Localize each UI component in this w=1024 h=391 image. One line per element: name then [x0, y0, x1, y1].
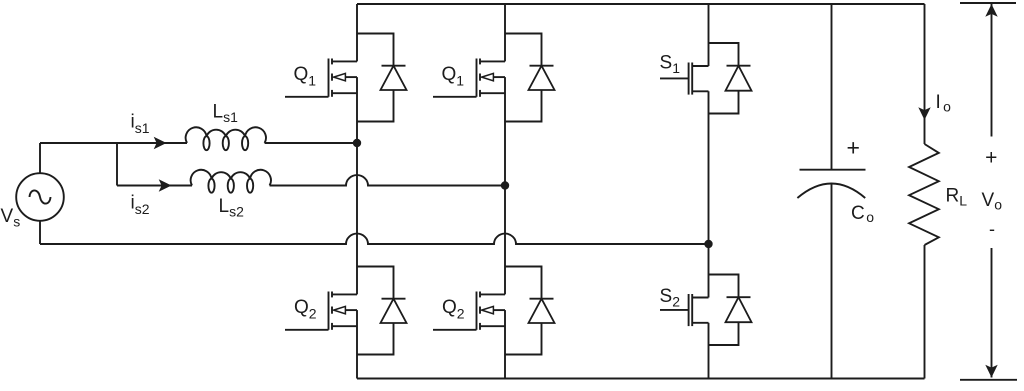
- wire leg3 upper (rail to S1 drain): [708, 4, 710, 66]
- wire Vs top lead: [39, 143, 41, 173]
- diode D6 (anti-parallel): [709, 275, 752, 346]
- svg-text:Io: Io: [936, 92, 952, 115]
- transistor Q2 (MOSFET, leg x=357): [285, 292, 357, 330]
- svg-text:Q2: Q2: [294, 297, 317, 322]
- svg-text:is2: is2: [131, 193, 150, 218]
- wire bottom rail (- bus): [357, 378, 925, 380]
- svg-text:Q2: Q2: [442, 297, 465, 322]
- svg-text:S2: S2: [660, 286, 681, 310]
- arrow Io (output current): [918, 107, 930, 120]
- dimension bar bottom: [960, 379, 1017, 381]
- node C (junction leg3 / return): [704, 240, 712, 248]
- node B (junction leg2 / is2): [501, 181, 509, 189]
- wire is1 horizontal (y=143): [40, 142, 187, 144]
- inductor Ls2: [191, 170, 271, 193]
- svg-text:Vo: Vo: [982, 190, 1003, 213]
- arrow is2 (current direction): [159, 179, 172, 191]
- transistor Q1 (MOSFET, leg x=357): [285, 59, 357, 97]
- svg-text:-: -: [989, 219, 995, 239]
- arrow Vo up: [985, 4, 997, 17]
- wire is2 left segment: [117, 185, 192, 187]
- svg-text:S1: S1: [660, 53, 681, 77]
- transistor S2 (MOSFET, leg x=708.5): [660, 294, 709, 326]
- arrow Vo down: [985, 365, 997, 378]
- svg-text:Ls1: Ls1: [213, 102, 239, 126]
- wire cap upper lead: [831, 4, 833, 170]
- svg-text:Q1: Q1: [442, 64, 465, 89]
- transistor Q1b (MOSFET, leg x=505): [433, 59, 505, 97]
- wire leg1 lower (Q2 source to rail): [356, 310, 358, 378]
- diode D1 (anti-parallel): [357, 34, 407, 122]
- wire leg1 middle (Q1 source to Q2 drain): [356, 77, 358, 294]
- wire is2 with hop over leg1: [270, 175, 505, 185]
- wire load lower lead: [924, 245, 926, 379]
- dimension bar top: [960, 2, 1016, 4]
- inductor Ls1: [186, 127, 266, 150]
- wire Vs bottom lead: [39, 221, 41, 244]
- wire leg2 upper (rail to Q1 drain): [504, 4, 506, 61]
- sine symbol inside Vs: [30, 190, 51, 203]
- wire Vo annotation lower: [991, 248, 993, 378]
- wire Ls1 to leg1: [265, 142, 357, 144]
- wire leg2 lower (Q2 source to rail): [504, 310, 506, 378]
- wire leg2 middle (Q1 source to Q2 drain): [504, 77, 506, 294]
- diode D5 (anti-parallel): [709, 43, 752, 114]
- node A (junction leg1 / is1): [353, 139, 361, 147]
- wire leg3 lower (S2 source to rail): [708, 323, 710, 379]
- wire top rail (+ bus): [357, 3, 925, 5]
- svg-text:+: +: [985, 147, 997, 170]
- diode D3 (anti-parallel): [505, 34, 555, 122]
- svg-text:Vs: Vs: [1, 206, 21, 230]
- svg-text:+: +: [847, 135, 860, 161]
- svg-text:Ls2: Ls2: [219, 196, 245, 220]
- diode D4 (anti-parallel): [505, 267, 555, 355]
- wire leg1 upper (rail to Q1 drain): [356, 4, 358, 61]
- diode D2 (anti-parallel): [357, 267, 407, 355]
- svg-text:Co: Co: [851, 203, 874, 225]
- capacitor Co bottom plate (curved): [797, 184, 865, 199]
- wire Vo annotation upper: [991, 4, 993, 137]
- svg-text:Q1: Q1: [294, 64, 317, 89]
- svg-text:RL: RL: [946, 186, 968, 209]
- resistor RL (zigzag): [909, 144, 939, 245]
- wire Vs return with hops over leg1 and leg2: [40, 234, 709, 244]
- capacitor Co top plate: [800, 169, 866, 171]
- wire leg3 middle (S1 source to S2 drain): [708, 91, 710, 297]
- wire cap lower lead: [831, 184, 833, 379]
- transistor Q2b (MOSFET, leg x=505): [433, 292, 505, 330]
- svg-text:is1: is1: [131, 112, 150, 137]
- wire load upper lead: [924, 4, 926, 144]
- arrow is1 (current direction): [154, 137, 167, 149]
- voltage source Vs (circle): [16, 173, 64, 221]
- transistor S1 (MOSFET, leg x=708.5): [660, 63, 709, 95]
- wire branch vertical x=117: [116, 143, 118, 186]
